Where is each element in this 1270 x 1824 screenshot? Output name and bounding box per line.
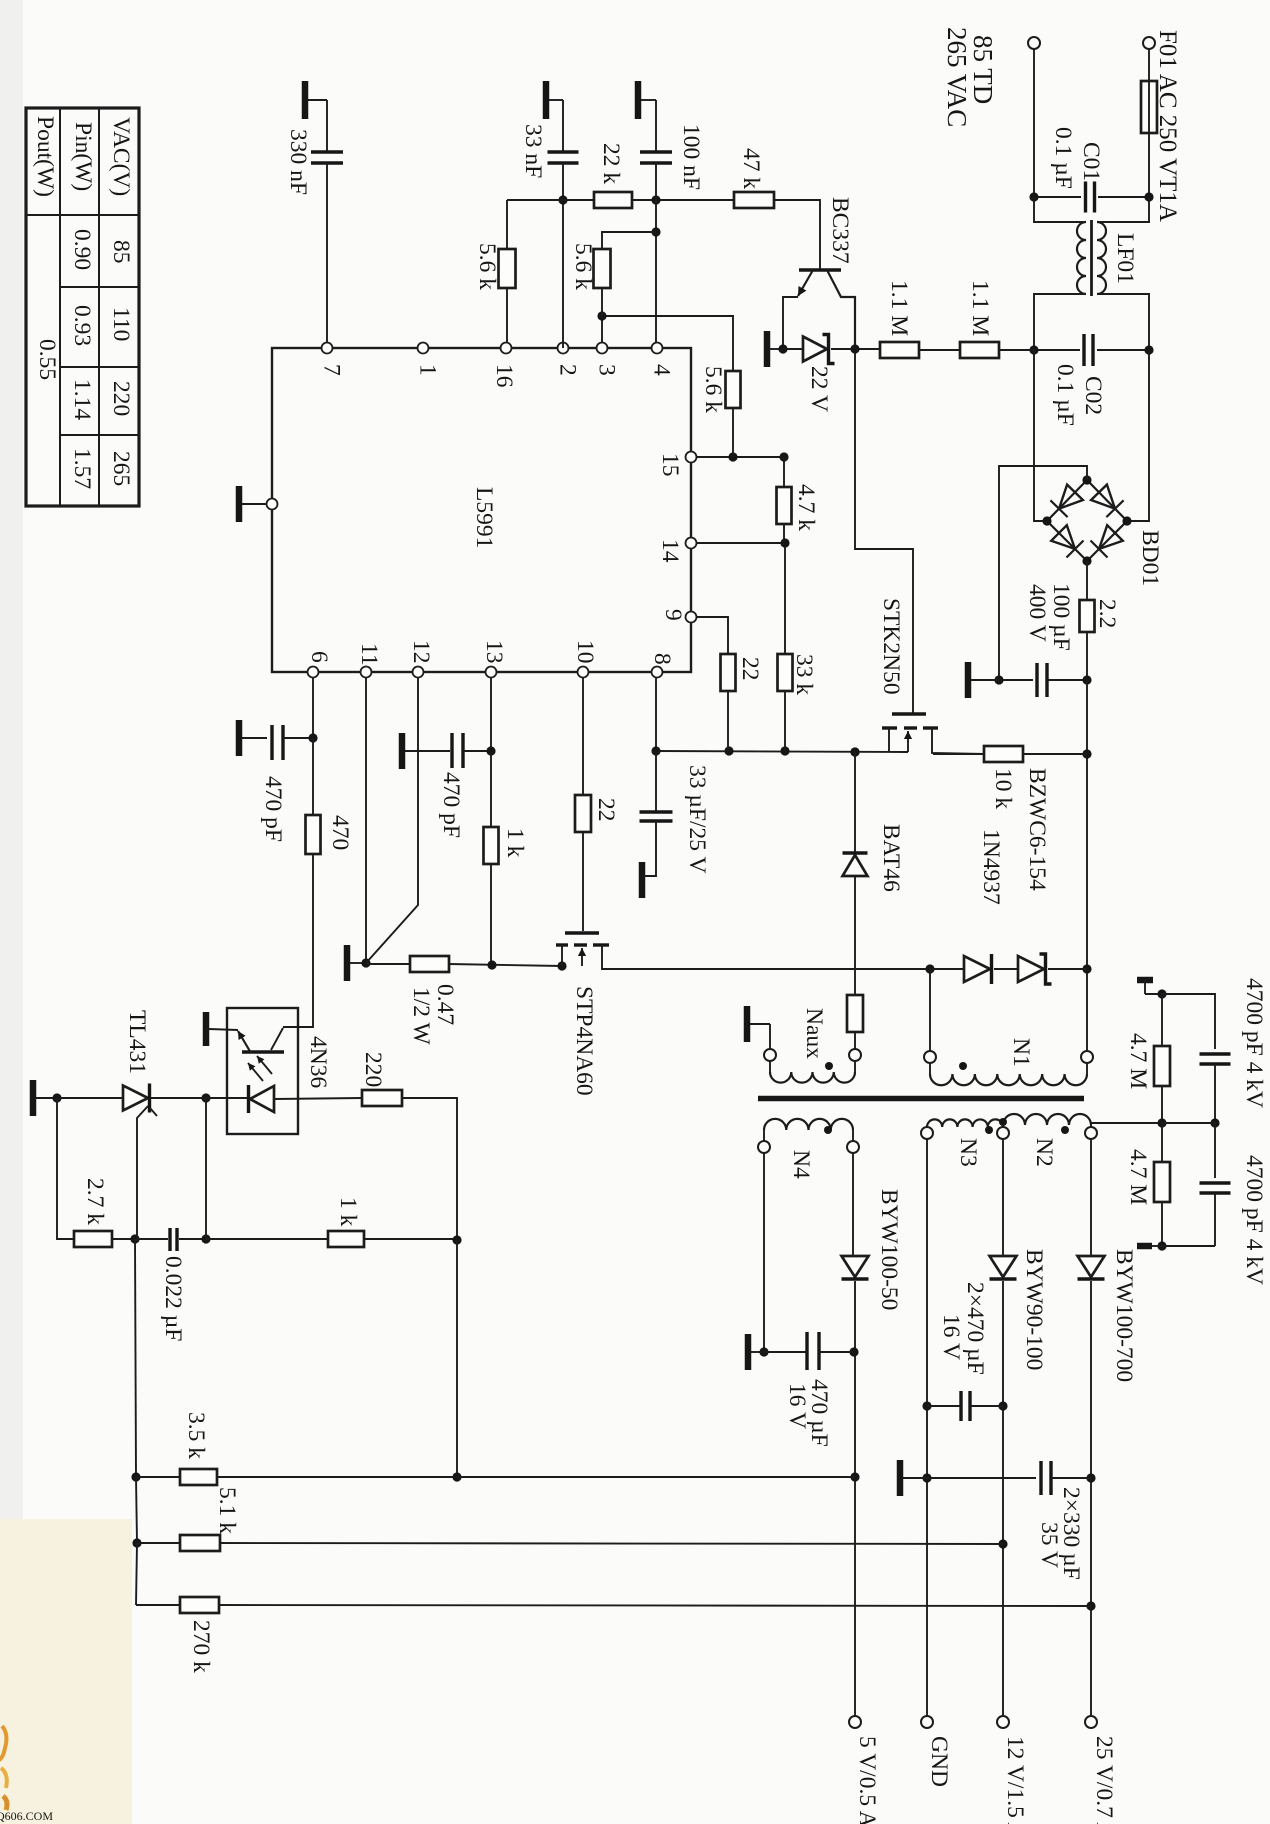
12V rail with diode BYW90-100 [1002, 1139, 1004, 1256]
Vcc node wire pin8 row [655, 678, 657, 751]
svg-text:TL431: TL431 [124, 1010, 150, 1074]
transformer core [758, 1096, 1084, 1102]
resistor 22k [563, 199, 594, 201]
pin 14 [686, 538, 697, 549]
svg-text:0.022 µF: 0.022 µF [160, 1256, 186, 1341]
svg-text:BC337: BC337 [827, 197, 853, 264]
wire right AC rail down to bridge [1127, 350, 1149, 521]
common mode choke LF01 [1034, 197, 1086, 222]
svg-text:3.5 k: 3.5 k [183, 1412, 209, 1459]
svg-text:85: 85 [108, 240, 134, 264]
svg-text:C02: C02 [1080, 376, 1106, 415]
svg-text:4.7 M: 4.7 M [1125, 1033, 1151, 1089]
wire pin6 down [312, 678, 314, 738]
resistor 5.1k to 12V [136, 1477, 137, 1543]
pin 6 [308, 667, 319, 678]
TL431 shunt regulator [57, 1097, 123, 1099]
svg-text:N1: N1 [1008, 1038, 1034, 1067]
secondary winding N2 [1003, 1114, 1091, 1125]
ground at Naux [744, 1006, 751, 1042]
svg-text:4.7 M: 4.7 M [1125, 1149, 1151, 1205]
resistor 33k on pin14 net [784, 543, 786, 654]
wire opto LED node down [205, 1098, 207, 1239]
pin 7 [322, 343, 333, 354]
svg-text:110: 110 [108, 307, 134, 341]
svg-text:2: 2 [555, 364, 581, 376]
wire 220/1k node down to 3.5k line [456, 1240, 458, 1477]
resistor 270k to 25V [136, 1543, 137, 1605]
svg-text:GND: GND [926, 1736, 952, 1787]
diode 1N4937 [930, 968, 964, 970]
svg-text:C01: C01 [1078, 142, 1104, 181]
svg-text:1.1 M: 1.1 M [886, 280, 912, 336]
svg-text:12: 12 [408, 640, 434, 664]
svg-text:270 k: 270 k [188, 1620, 214, 1673]
resistor 1.1M second [919, 349, 960, 351]
svg-text:STK2N50: STK2N50 [878, 598, 904, 695]
svg-text:15: 15 [657, 453, 683, 477]
wire N2 to snubber mid node [1091, 1123, 1162, 1127]
pin 10 [578, 667, 589, 678]
svg-text:1N4937: 1N4937 [978, 829, 1004, 905]
svg-text:7: 7 [319, 364, 345, 376]
GND rail [926, 1139, 928, 1716]
svg-text:11: 11 [356, 643, 382, 666]
resistor 22 gate drive on pin10 [582, 678, 584, 795]
wire bridge negative to primary ground node [999, 466, 1087, 680]
resistor 1k [490, 751, 492, 827]
output terminal 25V [1085, 1716, 1097, 1728]
pin 8 [652, 667, 663, 678]
capacitor 4700pF 4kV lower [1214, 1123, 1216, 1178]
svg-text:L5991: L5991 [471, 487, 497, 548]
resistor 4.7M lower [1161, 1123, 1163, 1162]
svg-text:265 VAC: 265 VAC [942, 27, 972, 127]
svg-text:BZWC6-154: BZWC6-154 [1024, 768, 1050, 891]
svg-text:BYW100-700: BYW100-700 [1111, 1249, 1137, 1382]
MOSFET STP4NA60 [565, 931, 599, 934]
HV bus wire down [1086, 680, 1088, 1051]
resistor 220 [362, 1090, 402, 1106]
pin 9 [686, 612, 697, 623]
output terminal 12V [997, 1716, 1009, 1728]
svg-text:220: 220 [360, 1052, 386, 1087]
pin 12 [413, 667, 424, 678]
resistor 3.5k to 5V [135, 1239, 136, 1477]
left margin gray strip [0, 0, 23, 1519]
wire left AC rail down to bridge [1034, 350, 1047, 521]
svg-text:0.47: 0.47 [432, 984, 458, 1025]
svg-text:265: 265 [108, 451, 134, 486]
svg-text:470: 470 [327, 815, 353, 850]
5V rail with diode BYW100-50 [852, 1153, 854, 1256]
AC input terminal right [1143, 37, 1155, 49]
pin 3 [597, 343, 608, 354]
resistor 5.6k pin3-row to pin15 net [602, 316, 733, 371]
wire pin16 elbow to node [507, 199, 563, 201]
resistor 1.1M first [855, 348, 880, 350]
svg-text:6: 6 [306, 651, 332, 663]
pin 16 [501, 343, 512, 354]
svg-text:4700 pF 4 kV: 4700 pF 4 kV [1241, 978, 1267, 1108]
svg-text:400 V: 400 V [1024, 584, 1050, 642]
resistor 1k feedback [206, 1238, 328, 1240]
resistor 470 [312, 738, 314, 815]
resistor 5.6k on pin16 [506, 200, 508, 249]
primary ground symbol at bulk cap [965, 662, 972, 698]
TL431 ref wire [137, 1106, 148, 1239]
svg-text:33 k: 33 k [791, 654, 817, 695]
svg-text:5.6 k: 5.6 k [474, 243, 500, 290]
capacitor 470pF on pin13 [399, 733, 406, 769]
svg-text:16 V: 16 V [784, 1383, 810, 1429]
opto phototransistor [242, 1050, 284, 1053]
svg-text:Pout(W): Pout(W) [32, 116, 58, 197]
snubber mid wire [1162, 1122, 1215, 1124]
snubber bottom wire and ground [1162, 1245, 1215, 1247]
svg-text:16 V: 16 V [938, 1314, 964, 1360]
svg-text:4: 4 [649, 364, 675, 376]
pin on left edge with ground [236, 486, 243, 522]
resistor 4.7M upper [1161, 994, 1163, 1046]
wire pin12 diagonal to ground node [366, 678, 418, 963]
pin 13 [486, 667, 497, 678]
wire 1.1M to AC rail [999, 349, 1034, 351]
resistor 22 on pin9 [696, 617, 728, 654]
svg-text:12 V/1.5 A: 12 V/1.5 A [1002, 1736, 1028, 1824]
resistor Naux series [847, 995, 863, 1032]
svg-text:4N36: 4N36 [305, 1036, 331, 1088]
svg-text:10 k: 10 k [990, 768, 1016, 809]
output terminal GND [921, 1716, 933, 1728]
zener diode 22V [783, 348, 803, 350]
svg-text:STP4NA60: STP4NA60 [571, 986, 597, 1096]
svg-text:2.2: 2.2 [1094, 599, 1120, 628]
wire from right terminal to fuse [1148, 49, 1150, 81]
beige scan block bottom-left [0, 1519, 132, 1824]
bridge rectifier BD01 [1047, 480, 1127, 561]
resistor 47k [656, 199, 734, 201]
svg-text:35 V: 35 V [1036, 1522, 1062, 1568]
svg-text:10: 10 [572, 640, 598, 664]
svg-text:2.7 k: 2.7 k [82, 1178, 108, 1225]
svg-text:0.1 µF: 0.1 µF [1050, 127, 1076, 189]
ground at opto emitter [203, 1012, 210, 1046]
secondary winding N3 [927, 1119, 1003, 1127]
svg-text:BAT46: BAT46 [878, 824, 904, 892]
svg-text:0.90: 0.90 [69, 229, 95, 270]
svg-text:330 nF: 330 nF [285, 129, 311, 195]
svg-text:22 V: 22 V [806, 366, 832, 412]
wire pin11 to ground node [365, 678, 367, 963]
svg-text:4700 pF 4 kV: 4700 pF 4 kV [1241, 1155, 1267, 1285]
pin 1 [418, 343, 429, 354]
svg-text:Naux: Naux [801, 1008, 827, 1059]
pin 2 [558, 343, 569, 354]
svg-text:1: 1 [415, 364, 441, 376]
pin 15 [686, 452, 697, 463]
table specifications grid [26, 108, 139, 506]
svg-text:BD01: BD01 [1137, 530, 1163, 586]
output terminal 5V [849, 1716, 861, 1728]
svg-text:N2: N2 [1031, 1138, 1057, 1167]
25V rail with diode BYW100-700 [1090, 1139, 1092, 1256]
capacitor 330nF on pin7 [302, 81, 309, 119]
diode BAT46 [850, 747, 859, 756]
aux winding Naux [764, 1049, 776, 1061]
svg-text:2×470 µF: 2×470 µF [962, 1282, 988, 1375]
capacitor 2x330uF 35V [1039, 1461, 1042, 1495]
svg-text:16: 16 [491, 364, 517, 388]
svg-text:1.14: 1.14 [69, 379, 95, 420]
svg-text:N4: N4 [788, 1150, 814, 1179]
svg-text:BYW100-50: BYW100-50 [876, 1189, 902, 1310]
svg-text:100 nF: 100 nF [678, 124, 704, 190]
svg-text:13: 13 [481, 640, 507, 664]
fuse F01 [1141, 81, 1157, 133]
ground at TL431 anode [30, 1080, 37, 1116]
svg-text:5.6 k: 5.6 k [700, 366, 726, 413]
svg-text:LF01: LF01 [1112, 233, 1138, 284]
svg-text:8: 8 [649, 653, 675, 665]
optocoupler 4N36 box [227, 1008, 298, 1134]
resistor 0.47 1/2W [366, 963, 410, 965]
svg-text:14: 14 [657, 539, 683, 563]
orange logo fragment at left edge [0, 1726, 6, 1760]
svg-text:5.6 k: 5.6 k [570, 243, 596, 290]
capacitor 4700pF 4kV upper [1162, 994, 1215, 1049]
svg-text:0.55: 0.55 [34, 339, 60, 380]
svg-text:25 V/0.7 A: 25 V/0.7 A [1091, 1736, 1117, 1824]
resistor 5.6k on pin3 [601, 316, 603, 342]
AC input terminal left [1028, 37, 1040, 49]
wire pin13 down [490, 678, 492, 751]
MOSFET STK2N50 [855, 349, 913, 713]
svg-text:BYW90-100: BYW90-100 [1021, 1249, 1047, 1370]
svg-text:100 µF: 100 µF [1048, 583, 1074, 651]
capacitor 33nF on pin2 [543, 81, 550, 119]
light arrows [248, 1063, 263, 1081]
svg-text:470 pF: 470 pF [438, 772, 464, 838]
capacitor C02 0.1uF [1034, 349, 1080, 351]
capacitor C01 0.1uF [1034, 196, 1081, 198]
pin 4 [652, 343, 663, 354]
capacitor 100nF on pin4 [635, 81, 642, 119]
svg-text:5.1 k: 5.1 k [214, 1487, 240, 1534]
svg-text:220: 220 [108, 381, 134, 416]
resistor 2.2 inrush [1086, 561, 1088, 600]
svg-text:1.1 M: 1.1 M [967, 280, 993, 336]
svg-text:Q606.COM: Q606.COM [0, 1809, 53, 1823]
svg-text:1 k: 1 k [335, 1197, 361, 1227]
svg-text:1.57: 1.57 [69, 448, 95, 489]
svg-text:0.93: 0.93 [69, 305, 95, 346]
primary winding N1 [924, 1051, 936, 1063]
IC L5991 body [272, 348, 691, 672]
resistor 10k startup [1023, 753, 1087, 755]
ground at BC337 emitter [764, 331, 771, 367]
svg-text:33 µF/25 V: 33 µF/25 V [684, 765, 710, 873]
svg-text:4.7 k: 4.7 k [793, 484, 819, 531]
resistor 2.7k [57, 1098, 74, 1239]
svg-text:47 k: 47 k [738, 148, 764, 189]
capacitor 470uF 16V on 5V [763, 1153, 765, 1352]
wire fuse to C01 [1148, 133, 1150, 197]
capacitor 470pF on pin6 [236, 720, 243, 756]
svg-text:1/2 W: 1/2 W [408, 987, 434, 1045]
wire from left terminal down [1033, 49, 1035, 197]
transil BZWC6-154 [1018, 956, 1044, 982]
capacitor 0.022uF [168, 1228, 171, 1251]
resistor 4.7k pin15 to pin14 [696, 456, 784, 458]
svg-text:33 nF: 33 nF [520, 124, 546, 178]
svg-text:3: 3 [594, 364, 620, 376]
snubber top ground [1137, 977, 1153, 984]
svg-text:22: 22 [737, 657, 763, 681]
capacitor 2x470uF 16V [959, 1391, 962, 1421]
svg-text:Pin(W): Pin(W) [70, 122, 96, 191]
transistor BC337 [799, 268, 841, 271]
svg-text:470 pF: 470 pF [260, 776, 286, 842]
secondary winding N4 [764, 1119, 853, 1130]
svg-text:VAC(V): VAC(V) [108, 117, 134, 196]
svg-text:22 k: 22 k [598, 143, 624, 184]
pin 11 [361, 667, 372, 678]
svg-text:N3: N3 [955, 1138, 981, 1167]
bulk capacitor 100uF 400V [999, 679, 1033, 681]
svg-text:0.1 µF: 0.1 µF [1052, 364, 1078, 426]
wire opto collector from 470 [283, 1026, 313, 1028]
ground at pin11/pin12 node [344, 945, 351, 981]
svg-text:22: 22 [593, 798, 619, 822]
svg-text:5 V/0.5 A: 5 V/0.5 A [854, 1736, 880, 1824]
svg-text:1 k: 1 k [502, 828, 528, 858]
opto LED [206, 1097, 250, 1099]
capacitor 33uF/25V [655, 751, 657, 812]
secondary ground bus [897, 1460, 904, 1496]
svg-text:9: 9 [660, 609, 686, 621]
wire drain node to N1 [925, 964, 934, 973]
